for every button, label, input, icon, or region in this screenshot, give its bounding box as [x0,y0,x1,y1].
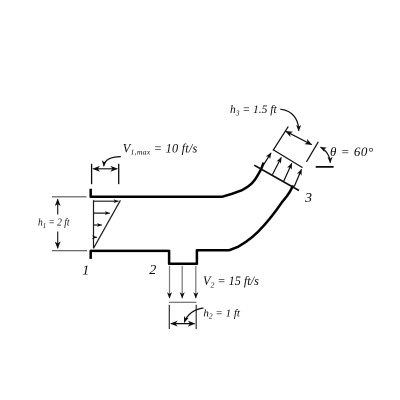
h3 dimension right tick [307,142,319,162]
outlet-2 velocity arrow right [195,266,197,298]
velocity profile arrow 3 [94,224,102,226]
velocity profile arrow 1 [94,200,119,202]
h2 ticks top connector line [169,301,197,303]
top wall of channel [91,164,264,197]
velocity profile diagonal line [94,200,121,248]
svg-text:1: 1 [82,263,89,278]
outlet-3 velocity arrow c [284,163,292,181]
h2 dimension right tick [195,305,197,329]
outlet-2 velocity arrow left [169,266,171,298]
h3 leader line [280,109,298,131]
h1 dimension double arrow lower segment [57,232,59,249]
svg-text:h2 = 1 ft: h2 = 1 ft [203,308,240,321]
svg-text:V2 = 15 ft/s: V2 = 15 ft/s [203,274,259,289]
V1max dimension right tick [118,164,120,184]
velocity profile arrow 4 [94,236,97,238]
V1max leader line [104,157,121,167]
h1 bottom extension line [52,250,87,252]
h2 dimension double arrow [171,323,195,325]
h1 dimension double arrow upper segment [57,199,59,214]
outlet-2 velocity arrow middle [181,266,183,298]
h3 dimension left tick [273,127,288,151]
h2 dimension left tick [168,305,170,329]
station-3 cross-section line [254,165,299,190]
svg-text:h1 = 2 ft: h1 = 2 ft [38,217,71,230]
svg-text:3: 3 [304,191,312,206]
svg-text:θ = 60°: θ = 60° [330,144,374,159]
h2 leader line [184,308,203,322]
svg-text:V1,max = 10 ft/s: V1,max = 10 ft/s [123,141,198,156]
velocity profile arrow 2 [94,212,110,214]
theta horizontal reference line [316,166,334,168]
theta angle arc [321,147,331,163]
bottom wall of channel with outlet-2 slot [91,187,293,264]
exit plane line at outlet 3 [273,150,303,168]
V1max dimension left tick [91,164,93,184]
outlet-3 velocity arrow d [294,169,301,186]
svg-text:h3 = 1.5 ft: h3 = 1.5 ft [230,104,277,117]
svg-text:2: 2 [149,263,156,278]
velocity profile vertical line [93,200,95,248]
outlet-3 velocity arrow a [261,153,271,169]
V1max dimension double arrow [93,168,117,170]
h1 top extension line [52,196,87,198]
outlet-3 velocity arrow b [273,157,282,174]
h3 dimension double arrow [286,131,312,144]
